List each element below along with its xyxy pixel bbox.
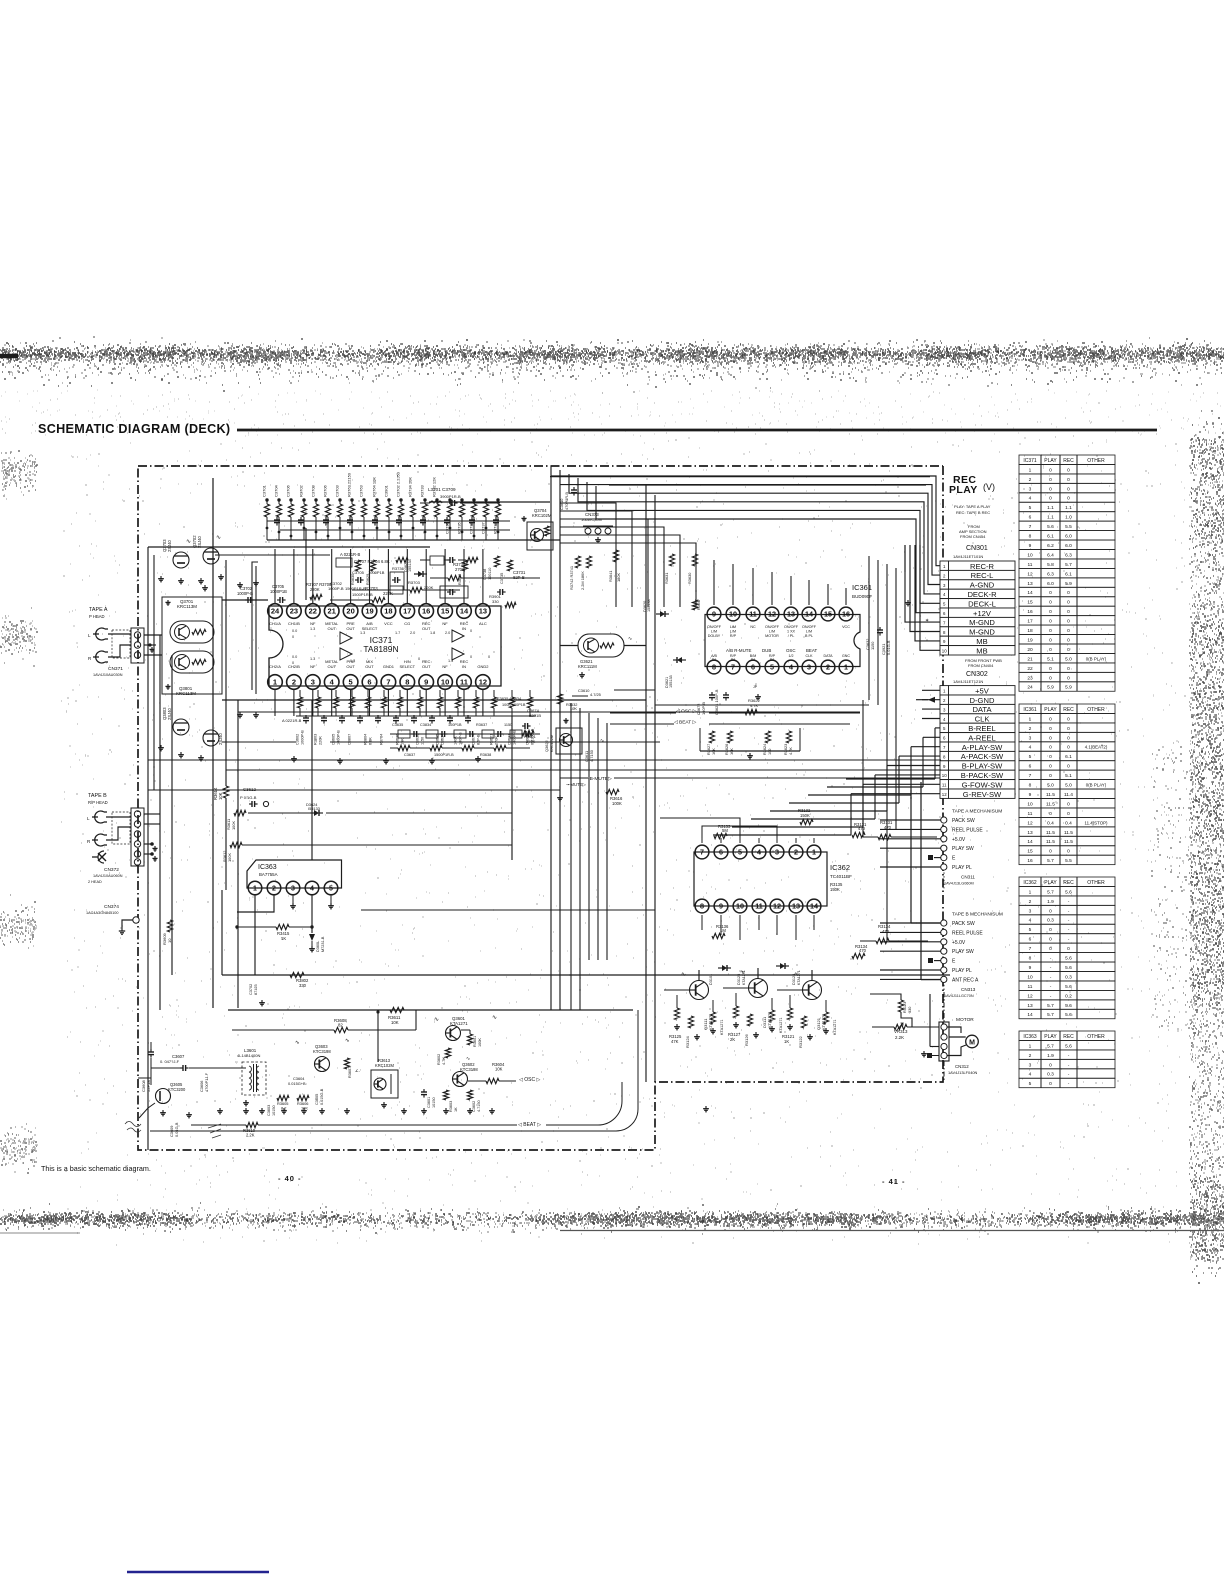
svg-text:C3612: C3612 [243,787,256,792]
svg-text:R/I: R/I [712,658,717,662]
svg-text:0: 0 [1049,600,1052,606]
svg-text:5M: 5M [722,828,728,833]
svg-text:/ PL: / PL [788,634,795,638]
svg-text:A-PLAY-SW: A-PLAY-SW [962,743,1003,752]
svg-text:5.6: 5.6 [1065,1043,1072,1049]
svg-text:ON/OFF: ON/OFF [802,625,817,629]
svg-text:4700P1J-F: 4700P1J-F [204,1072,209,1092]
svg-text:11.4(STOP): 11.4(STOP) [1084,820,1108,825]
svg-text:∿: ∿ [345,1038,350,1044]
svg-text:0: 0 [1067,666,1070,672]
svg-text:82P-B: 82P-B [477,734,481,745]
svg-text:L3701 C3709: L3701 C3709 [428,487,456,492]
svg-text:PLAY: PLAY [1044,707,1057,713]
svg-text:2: 2 [292,678,296,687]
svg-text:82P1B: 82P1B [529,713,541,718]
svg-text:0.015G+B: 0.015G+B [288,1081,306,1086]
svg-text:8: 8 [405,678,409,687]
svg-text:-B-MUTE▷: -B-MUTE▷ [588,776,612,782]
svg-text:IN: IN [462,626,466,631]
svg-text:R: R [87,839,91,844]
svg-text:KRC113M: KRC113M [176,691,196,696]
svg-text:470: 470 [858,826,866,831]
svg-text:KTA1271: KTA1271 [797,970,801,985]
svg-text:-: - [1068,1082,1070,1087]
svg-text:1.1: 1.1 [1047,515,1054,521]
svg-text:1000P-B: 1000P-B [513,730,517,745]
svg-text:◁ BEAT ▷: ◁ BEAT ▷ [674,720,696,726]
svg-text:11.5: 11.5 [1064,830,1073,836]
svg-text:5.7: 5.7 [1047,1043,1054,1049]
svg-text:VR313: VR313 [894,1029,908,1034]
svg-text:0: 0 [488,655,490,659]
svg-text:1.3: 1.3 [310,627,315,631]
svg-text:8: 8 [1029,534,1032,540]
svg-text:8: 8 [700,902,704,911]
svg-text:3900P1R-B: 3900P1R-B [440,494,461,499]
svg-text:C3635: C3635 [436,734,440,745]
svg-text:R3623: R3623 [784,744,788,755]
svg-text:IC363: IC363 [1023,1034,1037,1040]
svg-text:L/M: L/M [769,630,775,634]
svg-text:220K: 220K [319,736,323,745]
svg-text:1.1: 1.1 [1047,505,1054,511]
svg-text:155133: 155133 [408,559,412,572]
svg-text:KTA1271: KTA1271 [720,1019,724,1035]
svg-text:4: 4 [1029,918,1032,924]
svg-text:+5.0V: +5.0V [952,940,966,946]
svg-text:5.6: 5.6 [1065,984,1072,990]
svg-text:R3124: R3124 [685,1035,690,1048]
svg-text:1500P1R-B: 1500P1R-B [345,586,366,591]
svg-text:A 0221R-B: A 0221R-B [282,718,302,723]
svg-text:PLAY PL: PLAY PL [952,865,972,871]
svg-text:0: 0 [1067,726,1070,732]
svg-text:9: 9 [1029,965,1032,971]
svg-text:R3627: R3627 [707,744,711,755]
svg-text:12: 12 [942,792,947,797]
svg-text:1: 1 [1029,716,1032,722]
svg-text:C3701: C3701 [262,484,267,497]
svg-text:1: 1 [844,663,848,672]
svg-text:DUB: DUB [762,648,771,653]
svg-text:5.6: 5.6 [1065,889,1072,895]
svg-text:14: 14 [810,902,818,911]
svg-text:∿: ∿ [186,539,191,545]
svg-text:1: 1 [1029,467,1032,473]
svg-text:CN302: CN302 [966,671,988,678]
svg-text:0: 0 [1067,675,1070,681]
svg-text:1.7: 1.7 [395,631,400,635]
svg-text:CN374: CN374 [104,904,119,910]
svg-text:5: 5 [329,886,333,893]
svg-text:0: 0 [1067,946,1070,952]
svg-text:IN: IN [462,664,466,669]
svg-text:0: 0 [1067,590,1070,596]
svg-text:∿: ∿ [600,738,604,744]
svg-text:SELECT: SELECT [400,664,416,669]
svg-text:6.1: 6.1 [1065,571,1072,577]
svg-text:0: 0 [1067,609,1070,615]
svg-text:CN371: CN371 [108,666,123,672]
svg-text:13: 13 [1027,830,1033,836]
svg-text:0: 0 [1049,666,1052,672]
svg-text:2.2K: 2.2K [895,1035,904,1040]
svg-text:0: 0 [1049,647,1052,653]
svg-text:C3631: C3631 [508,734,512,745]
svg-text:M7231-B: M7231-B [321,936,325,952]
svg-text:4: 4 [757,848,761,857]
svg-text:R3731: R3731 [493,521,498,534]
svg-text:-: - [1068,938,1070,943]
svg-text:5: 5 [1029,505,1032,511]
svg-text:-▪-MUTE▷: -▪-MUTE▷ [566,782,587,787]
svg-text:IC362: IC362 [830,863,850,872]
svg-text:2SJ40: 2SJ40 [218,732,223,745]
svg-text:0: 0 [1049,496,1052,502]
svg-text:5.5: 5.5 [1065,858,1072,864]
svg-text:0: 0 [1049,811,1052,817]
svg-text:5.6: 5.6 [1047,524,1054,530]
svg-text:10K: 10K [301,1106,308,1111]
svg-text:0: 0 [1049,675,1052,681]
svg-text:0: 0 [1067,600,1070,606]
svg-text:1K: 1K [454,1107,458,1112]
svg-text:PLAY: TAPE A PLAY: PLAY: TAPE A PLAY [954,504,991,509]
svg-text:0.01G-B: 0.01G-B [174,1122,179,1137]
svg-text:IC363: IC363 [258,864,277,871]
svg-text:FROM CN454: FROM CN454 [960,534,986,539]
svg-text:0: 0 [1049,477,1052,483]
svg-text:11: 11 [1028,811,1033,817]
svg-text:5.7: 5.7 [1047,858,1054,864]
svg-text:100K 100P1B: 100K 100P1B [502,703,526,707]
svg-text:330: 330 [492,599,499,604]
svg-text:R3703: R3703 [408,580,421,585]
svg-text:0: 0 [1049,467,1052,473]
svg-text:1000P-B: 1000P-B [328,586,344,591]
svg-text:7: 7 [1029,773,1032,779]
svg-text:11: 11 [1028,562,1033,568]
svg-text:1AV4J11ET121N: 1AV4J11ET121N [953,679,983,684]
svg-text:OUT: OUT [422,664,431,669]
svg-text:NF: NF [310,621,316,626]
svg-text:330: 330 [908,1007,912,1013]
svg-text:11: 11 [755,902,763,911]
svg-text:270K: 270K [455,567,465,572]
svg-text:0(B PLAY): 0(B PLAY) [1086,783,1107,788]
svg-text:2: 2 [1029,726,1032,732]
svg-text:11: 11 [749,610,757,619]
svg-text:R3736: R3736 [392,566,405,571]
svg-text:OUT: OUT [346,664,355,669]
svg-text:9: 9 [1029,792,1032,798]
svg-text:C3603: C3603 [267,1105,271,1116]
svg-text:10150: 10150 [432,1097,436,1108]
svg-text:D360L: D360L [316,941,320,952]
svg-text:4.7150: 4.7150 [477,1100,481,1112]
svg-text:8: 8 [1029,956,1032,962]
svg-text:-: - [1068,1073,1070,1078]
svg-text:R3735: R3735 [457,521,462,534]
svg-text:R3763 22150: R3763 22150 [347,472,352,497]
svg-text:0.3: 0.3 [1047,918,1054,924]
svg-text:C3763: C3763 [359,484,364,497]
svg-text:CLK: CLK [806,654,814,658]
svg-text:23: 23 [290,607,298,616]
svg-text:REEL PULSE: REEL PULSE [952,827,983,833]
svg-text:0: 0 [1049,628,1052,634]
svg-text:5.6: 5.6 [1065,965,1072,971]
svg-text:KRC111M: KRC111M [578,664,597,669]
svg-text:✶: ✶ [925,618,929,624]
svg-text:1000P-B: 1000P-B [301,730,305,745]
svg-text:6.0: 6.0 [1047,581,1054,587]
svg-text:R3602: R3602 [437,1054,441,1065]
svg-text:0: 0 [1067,477,1070,483]
svg-text:2.0: 2.0 [410,631,415,635]
svg-text:ANT REC A: ANT REC A [952,977,979,983]
svg-text:2SJ40: 2SJ40 [167,539,172,552]
svg-text:G-REV-SW: G-REV-SW [963,790,1002,799]
svg-text:CG: CG [404,621,410,626]
svg-text:C3834: C3834 [420,723,431,727]
svg-text:12: 12 [1027,820,1033,826]
svg-text:6.2: 6.2 [1047,543,1054,549]
svg-text:15: 15 [824,610,832,619]
svg-text:-: - [1050,994,1052,999]
svg-text:12: 12 [773,902,781,911]
svg-text:5.9: 5.9 [1065,685,1072,691]
svg-text:16: 16 [1027,609,1033,615]
svg-text:L: L [88,633,91,638]
svg-text:0: 0 [470,629,472,633]
svg-text:PLAY: PLAY [949,484,978,496]
svg-text:C3708: C3708 [311,484,316,497]
svg-text:1/2: 1/2 [789,654,794,658]
svg-text:1150: 1150 [870,641,875,650]
svg-text:0: 0 [1049,1081,1052,1087]
svg-text:-: - [1050,985,1052,990]
svg-text:TC4011BF: TC4011BF [830,874,852,879]
svg-text:0: 0 [1067,647,1070,653]
svg-text:R3630: R3630 [351,574,355,585]
svg-text:0: 0 [1067,628,1070,634]
svg-text:R3647: R3647 [697,599,701,610]
svg-text:2 HEAD: 2 HEAD [88,880,102,884]
svg-text:OTHER: OTHER [1087,707,1105,713]
svg-text:F3835 C3834: F3835 C3834 [497,696,522,701]
svg-text:22: 22 [309,607,317,616]
svg-text:A/B R-MUTE: A/B R-MUTE [726,648,751,653]
svg-text:2: 2 [1029,1053,1032,1059]
svg-text:5: 5 [1029,1081,1032,1087]
svg-text:10: 10 [729,610,737,619]
svg-text:6.1: 6.1 [1047,534,1054,540]
svg-text:KTA1271: KTA1271 [779,1017,783,1033]
svg-text:PACK SW: PACK SW [952,921,975,927]
svg-text:5.6: 5.6 [1065,956,1072,962]
svg-text:3: 3 [311,678,315,687]
svg-text:6: 6 [1029,515,1032,521]
svg-text:VCC: VCC [842,625,850,629]
svg-text:DECK-R: DECK-R [967,590,997,599]
svg-text:4.7/25: 4.7/25 [590,692,601,697]
svg-text:OTHER: OTHER [1087,458,1105,464]
svg-text:0: 0 [1049,927,1052,933]
svg-text:6.0: 6.0 [1065,543,1072,549]
svg-text:R3742 R3741: R3742 R3741 [569,566,574,590]
svg-text:19: 19 [365,607,373,616]
svg-text:0: 0 [470,655,472,659]
svg-text:3: 3 [291,886,295,893]
svg-text:NF: NF [310,664,316,669]
svg-text:470P1R-B: 470P1R-B [564,492,569,510]
svg-text:2.2M 180K: 2.2M 180K [580,571,585,590]
svg-text:2: 2 [826,663,830,672]
svg-text:13: 13 [792,902,800,911]
svg-text:REC: REC [1063,880,1074,886]
svg-text:-: - [1050,975,1052,980]
svg-text:PLAY PL: PLAY PL [952,968,972,974]
svg-text:R3804: R3804 [364,734,368,745]
svg-text:1.8: 1.8 [430,631,435,635]
svg-text:0: 0 [292,661,294,665]
svg-text:C3674: C3674 [472,734,476,745]
svg-text:C3706: C3706 [286,484,291,497]
svg-text:B-REEL: B-REEL [968,724,995,733]
svg-text:C3634: C3634 [441,734,445,745]
svg-text:MOTOR: MOTOR [765,634,779,638]
svg-text:13: 13 [479,607,487,616]
svg-text:20: 20 [1027,647,1033,653]
svg-text:C3901: C3901 [384,484,389,497]
svg-text:CN311: CN311 [961,874,975,879]
svg-text:0: 0 [1067,849,1070,855]
svg-text:0: 0 [1067,637,1070,643]
svg-text:R3629: R3629 [366,574,370,585]
svg-text:R3626: R3626 [725,744,729,755]
svg-text:1.3: 1.3 [360,631,365,635]
svg-text:NC: NC [750,625,756,629]
svg-text:∿: ∿ [628,636,632,642]
svg-text:10K: 10K [218,792,223,800]
svg-text:1K: 1K [281,936,286,941]
svg-text:CH1/A: CH1/A [269,621,281,626]
svg-text:16: 16 [842,610,850,619]
svg-text:0.2: 0.2 [1065,993,1072,999]
svg-text:0: 0 [1049,716,1052,722]
svg-text:3: 3 [807,663,811,672]
svg-text:R3734 10K: R3734 10K [408,477,413,497]
svg-text:CN301: CN301 [966,545,988,552]
svg-text:1AV4J11LGC70N: 1AV4J11LGC70N [944,994,974,998]
svg-text:R3630: R3630 [687,572,692,584]
svg-text:C3602: C3602 [296,734,300,745]
svg-text:10: 10 [167,938,172,943]
svg-text:11: 11 [942,783,947,788]
svg-text:15K: 15K [401,738,405,745]
svg-text:5.7: 5.7 [1047,1012,1054,1018]
svg-text:100K: 100K [227,853,232,862]
svg-text:1.3: 1.3 [310,657,315,661]
svg-text:MOTOR: MOTOR [956,1017,974,1023]
svg-text:5.9: 5.9 [1047,685,1054,691]
svg-text:I55133: I55133 [308,806,320,811]
svg-text:R3706: R3706 [323,484,328,497]
svg-text:14: 14 [805,610,813,619]
svg-text:2SJ40: 2SJ40 [197,535,202,548]
svg-text:- 40 -: - 40 - [278,1174,302,1183]
svg-text:P 0.1G-B: P 0.1G-B [240,795,257,800]
svg-text:100K: 100K [478,1038,482,1047]
svg-text:16: 16 [422,607,430,616]
svg-text:3: 3 [775,848,779,857]
svg-text:6.3: 6.3 [1047,571,1054,577]
svg-text:21: 21 [328,607,336,616]
svg-text:12: 12 [1027,993,1033,999]
svg-text:NF: NF [442,621,448,626]
svg-text:0: 0 [1067,486,1070,492]
svg-text:TAPE A MECHANISUM: TAPE A MECHANISUM [952,809,1002,815]
svg-text:0: 0 [1049,637,1052,643]
svg-text:1.9: 1.9 [1047,1053,1054,1059]
svg-text:TAPE B: TAPE B [88,793,107,799]
svg-text:100P-B: 100P-B [701,702,706,715]
svg-text:M: M [969,1040,975,1047]
svg-text:12: 12 [1027,571,1033,577]
svg-text:10: 10 [1027,552,1033,558]
svg-text:R: R [88,656,92,661]
svg-text:1150: 1150 [504,723,512,727]
svg-text:L: L [87,816,90,821]
svg-text:0.4: 0.4 [1065,820,1072,826]
svg-text:0: 0 [1067,619,1070,625]
svg-text:11.5: 11.5 [1064,839,1073,845]
svg-text:14: 14 [1027,590,1033,596]
svg-text:CN312: CN312 [955,1064,969,1069]
svg-text:ON/OFF: ON/OFF [765,625,780,629]
svg-text:0.0: 0.0 [292,655,297,659]
svg-text:5.7: 5.7 [1065,562,1072,568]
svg-text:1AC4A3GN845100: 1AC4A3GN845100 [86,911,119,915]
svg-text:5.6: 5.6 [1065,1012,1072,1018]
svg-text:0: 0 [1049,937,1052,943]
svg-text:0: 0 [1049,745,1052,751]
svg-text:R3624: R3624 [763,744,767,755]
svg-text:R3764 10K: R3764 10K [372,477,377,497]
svg-text:∿: ∿ [216,535,221,541]
svg-text:REC: REC [1063,707,1074,713]
svg-text:ON/OFF: ON/OFF [784,625,799,629]
svg-text:C3621 100P-B: C3621 100P-B [714,689,719,715]
svg-text:KTC3198: KTC3198 [313,1049,331,1054]
svg-text:220K: 220K [424,585,434,590]
svg-text:220K: 220K [383,591,393,596]
svg-text:R/P: R/P [730,634,737,638]
svg-text:-: - [1068,1054,1070,1059]
svg-text:OSC: OSC [786,648,796,653]
svg-text:C3702 2.2J50: C3702 2.2J50 [396,471,401,497]
svg-text:CN372: CN372 [104,867,119,873]
svg-text:1.3: 1.3 [350,659,355,663]
svg-text:KTA1271: KTA1271 [708,1013,713,1030]
svg-text:0: 0 [1049,735,1052,741]
svg-text:12: 12 [768,610,776,619]
svg-text:0: 0 [1067,801,1070,807]
svg-text:4.7150: 4.7150 [589,749,594,762]
svg-text:M-GND: M-GND [969,628,995,637]
